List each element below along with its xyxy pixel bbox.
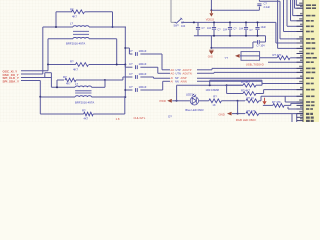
capacitor C10 (253, 40, 266, 44)
resistor R8 (227, 83, 262, 87)
inductor L1 winding bottom (73, 37, 89, 38)
wire c10 right elbow (265, 36, 267, 42)
svg-text:CHL/GTL: CHL/GTL (134, 116, 146, 120)
node gnd tee (210, 47, 212, 49)
port arrow gnd (227, 112, 238, 116)
svg-text:AI: AI (171, 76, 174, 80)
node row2 left (55, 26, 57, 28)
wire top rail right elbow (276, 22, 303, 43)
svg-text:4K7: 4K7 (66, 82, 71, 86)
wire rect loop (241, 52, 260, 61)
wire bottom exit 1 (291, 114, 293, 122)
svg-text:10uF: 10uF (261, 26, 267, 29)
wire vdd drop (210, 0, 212, 10)
resistor R10 (246, 112, 303, 116)
wire mid2 to ic (197, 71, 303, 74)
label L2 part number (75, 101, 94, 105)
wire bottom exit 2 (296, 114, 298, 122)
wire row4 (48, 64, 125, 66)
svg-text:D?: D? (168, 115, 172, 119)
diode LED1 (190, 94, 198, 105)
IC U1 body (303, 0, 319, 122)
net label usb (246, 62, 264, 66)
label R11 (272, 100, 281, 104)
label C8 (234, 27, 244, 30)
capacitor C3 (136, 75, 138, 79)
inductor L2 winding bottom (75, 96, 91, 97)
wire led row to ic (238, 100, 245, 102)
wire net3 (21, 77, 51, 79)
label rail note (206, 88, 219, 92)
capacitor C7 (228, 22, 232, 35)
svg-text:C?: C? (129, 62, 133, 66)
wire led riser (177, 85, 178, 101)
node c6 top (213, 21, 215, 23)
label R2 value (73, 67, 78, 71)
label R3 designator (63, 75, 67, 79)
inductor L2 core lines (75, 91, 91, 93)
port arrow led (160, 99, 177, 103)
power port down red (262, 98, 266, 105)
wire capC right (140, 77, 170, 78)
label port mid (225, 56, 229, 60)
svg-text:AINN: AINN (181, 80, 187, 84)
inductor L1 core lines (73, 31, 89, 34)
label R8 (241, 80, 250, 84)
label R9 (241, 88, 250, 92)
svg-text:AOUTP: AOUTP (183, 68, 192, 72)
label C2 (129, 62, 147, 66)
node capA tap (124, 47, 126, 49)
wire left vertical to red row1 (47, 65, 49, 71)
node capD tap (124, 89, 126, 91)
wire pin109 riser (288, 107, 303, 109)
svg-text:R? 47K: R? 47K (272, 100, 281, 104)
resistor R2 row4 (75, 63, 89, 67)
wire nest v5 (296, 0, 303, 5)
wire net3 bridge (45, 73, 52, 88)
net label left 3 (3, 76, 19, 80)
svg-text:1R0 0.8MM: 1R0 0.8MM (206, 88, 219, 92)
IC U1 pin names (306, 4, 317, 122)
label R4 value (84, 116, 89, 120)
wire capD left (125, 89, 132, 91)
svg-text:R? 1K: R? 1K (247, 96, 255, 100)
wire net1 (21, 70, 48, 72)
wire row2 (43, 26, 126, 28)
resistor R4 bottom (84, 112, 94, 116)
wire net4 vertical (39, 81, 41, 114)
label L1 designator (70, 22, 74, 26)
wire gnd drop (210, 36, 212, 48)
svg-text:C?: C? (129, 85, 133, 89)
resistor R6 (209, 99, 238, 103)
capacitor C9 (255, 22, 259, 35)
net label mid 3 (171, 76, 187, 80)
inductor L1 winding top (73, 26, 89, 27)
label C10 (257, 45, 266, 48)
svg-text:L?: L? (70, 22, 74, 26)
label d? (168, 115, 172, 119)
net label left 4 (3, 80, 20, 84)
svg-text:AO: AO (171, 72, 175, 76)
label R10 (247, 109, 256, 113)
svg-text:RGB LED 0603: RGB LED 0603 (236, 118, 256, 122)
power port VDD arrow (209, 10, 213, 16)
label R7 value (247, 96, 255, 100)
node c7 bottom (229, 35, 231, 37)
label C3 (129, 72, 147, 76)
svg-text:R?: R? (213, 95, 217, 99)
wire gnd row (238, 113, 245, 115)
label C5 (181, 21, 186, 27)
node c6 bottom (213, 35, 215, 37)
capacitor C2 (136, 65, 138, 69)
wire row3 right elbow (89, 39, 117, 65)
node c9 bottom (257, 35, 259, 37)
node net4-winding2 (39, 96, 41, 98)
node c8 bottom (245, 35, 247, 37)
wire port row (263, 104, 273, 106)
wire cap bank bottom rail (194, 35, 266, 37)
wire net2 (21, 73, 43, 75)
wire vdd to cap (211, 9, 259, 11)
svg-text:R? 4K7: R? 4K7 (241, 88, 250, 92)
net label chl (134, 116, 146, 120)
node c7 top (229, 21, 231, 23)
wire c9 top elbow (259, 1, 303, 39)
svg-text:AI: AI (171, 80, 174, 84)
wire rail b drop (227, 85, 243, 93)
svg-text:4K7: 4K7 (73, 67, 78, 71)
svg-text:SPI_SDA_Y: SPI_SDA_Y (3, 80, 20, 84)
wire net4 (21, 80, 40, 82)
label R1 value (72, 15, 77, 19)
node row1-row2 right (112, 26, 114, 28)
label VDD (206, 18, 215, 21)
capacitor C8 (244, 22, 248, 35)
node rail left (193, 21, 195, 23)
svg-text:USB_TXD0-D: USB_TXD0-D (246, 62, 264, 66)
wire winding1 left (51, 86, 75, 88)
wire bottom rail right (93, 97, 125, 114)
wire led cathode (199, 100, 209, 102)
node gnd row (237, 113, 239, 115)
svg-text:PWR: PWR (160, 99, 166, 103)
label LED1 part (185, 108, 204, 112)
net label left 1 (3, 70, 18, 74)
net label rgb (236, 118, 256, 122)
label SW1 (174, 24, 180, 27)
svg-text:100nF: 100nF (139, 49, 147, 53)
svg-text:C?: C? (129, 72, 133, 76)
svg-text:100nF: 100nF (139, 72, 147, 76)
switch SW1 (175, 18, 194, 24)
wire stray gray (171, 0, 175, 22)
svg-text:104: 104 (239, 27, 244, 30)
label C8b (250, 26, 267, 32)
wire row1 left elbow (56, 12, 66, 27)
svg-text:GND: GND (208, 57, 213, 59)
wire mid1 to ic (197, 68, 303, 69)
svg-text:C? 104: C? 104 (257, 45, 266, 48)
wire capA left (125, 48, 132, 54)
net label mid 2 (171, 72, 192, 76)
wire c10 left elbow (252, 42, 254, 48)
svg-text:100nF: 100nF (139, 62, 147, 66)
wire row1 right elbow (89, 12, 113, 27)
svg-text:R?: R? (63, 75, 67, 79)
label C7 (218, 29, 228, 32)
wire mid3 to ic (197, 77, 303, 79)
resistor R9 (243, 90, 303, 96)
wire gnd run (211, 47, 253, 49)
node rail b (226, 84, 228, 86)
node vdd (210, 9, 212, 11)
svg-text:BRF2016-49TA: BRF2016-49TA (75, 101, 94, 105)
IC U1 pin stubs (297, 5, 304, 120)
svg-text:SW?: SW? (174, 24, 180, 27)
label C6 (202, 27, 212, 30)
label R2 designator (70, 60, 74, 64)
resistor R1 (66, 10, 89, 14)
capacitor C1 (136, 52, 138, 56)
wire winding2 right (92, 96, 126, 98)
wire capB left (125, 65, 132, 68)
label L1 part number (66, 42, 85, 46)
wire nest v6 (295, 0, 304, 8)
svg-text:Y?: Y? (225, 56, 229, 60)
wire cap bank top rail (194, 21, 276, 23)
wire mid4 to ic (197, 81, 303, 83)
capacitor C5 (196, 22, 200, 35)
wire nest v4 (293, 0, 303, 16)
label C1 (129, 49, 147, 53)
resistor R5 (260, 56, 303, 60)
svg-text:100nF: 100nF (139, 85, 147, 89)
label R5 (273, 53, 282, 57)
resistor R3 row5 (65, 78, 105, 82)
resistor R7 (246, 96, 303, 102)
svg-text:C?: C? (129, 49, 133, 53)
svg-text:NN: NN (175, 80, 179, 84)
svg-text:UTP: UTP (176, 68, 181, 72)
label LED1 designator (186, 92, 193, 96)
wire nest v2 (287, 0, 303, 26)
node row5 right (104, 79, 106, 81)
label L2 designator (75, 82, 79, 86)
svg-text:104: 104 (223, 29, 228, 32)
wire pin48 feed (278, 0, 303, 48)
label R6 designator (213, 95, 217, 99)
wire winding1 right (92, 80, 106, 87)
svg-text:R?: R? (70, 7, 74, 11)
wire nest v1 (284, 0, 304, 32)
wire nest v3 (291, 0, 304, 21)
svg-text:R?: R? (82, 108, 86, 112)
IC U1 pin numbers (299, 3, 302, 120)
svg-text:104: 104 (207, 27, 212, 30)
svg-text:LED?: LED? (186, 92, 193, 96)
resistor R11 (273, 103, 303, 107)
svg-text:VDD33: VDD33 (206, 18, 215, 21)
label R6 value (212, 103, 215, 107)
node c9 top (257, 21, 259, 23)
svg-text:UTN: UTN (176, 72, 181, 76)
node rail a (209, 84, 211, 86)
svg-text:GND: GND (219, 112, 225, 116)
svg-text:R? 47K: R? 47K (247, 109, 256, 113)
node c8 top (245, 21, 247, 23)
node winding1 left (56, 86, 58, 88)
ground symbol mid (208, 50, 214, 58)
svg-text:L?: L? (75, 82, 79, 86)
label R3 value (66, 82, 71, 86)
label C9 (264, 1, 271, 9)
net label left 2 (3, 73, 19, 77)
label C4 (129, 85, 147, 89)
svg-text:1K: 1K (212, 103, 215, 107)
wire led anode (177, 100, 190, 102)
node row4 right (116, 64, 118, 66)
wire usb to ic (268, 61, 303, 63)
svg-text:4K7: 4K7 (72, 15, 77, 19)
net label mid 1 (171, 68, 192, 72)
capacitor C4 (136, 88, 138, 92)
wire capB right (140, 67, 170, 73)
svg-text:AOUTN: AOUTN (183, 72, 192, 76)
svg-text:Blue LED 0603: Blue LED 0603 (185, 108, 204, 112)
node row4 left (47, 64, 49, 66)
capacitor C6 (212, 22, 216, 35)
port arrow left mid (235, 54, 260, 58)
label R1 designator (70, 7, 74, 11)
label gnd bottom (219, 112, 225, 116)
net label 1v8 (116, 117, 120, 121)
wire rail a stub (210, 80, 262, 85)
wire capC left feed (105, 77, 132, 80)
node winding2 right (124, 96, 126, 98)
svg-text:NP: NP (175, 76, 179, 80)
wire winding2 left (40, 96, 75, 98)
svg-text:C?: C? (264, 1, 268, 5)
svg-text:AO: AO (171, 68, 175, 72)
node led row (237, 100, 239, 102)
capacitor C9 (257, 0, 261, 10)
svg-text:R? 47K: R? 47K (273, 53, 282, 57)
svg-text:R?: R? (70, 60, 74, 64)
wire row2 left vertical (42, 27, 44, 74)
wire bottom rail left (40, 113, 83, 115)
wire gnd row vertical (237, 101, 239, 114)
inductor L2 winding top (75, 86, 91, 87)
label R4 designator (82, 108, 86, 112)
wire capD right (140, 81, 170, 90)
wire pin102 riser (285, 96, 303, 102)
svg-text:BRF2016-49TA: BRF2016-49TA (66, 42, 85, 46)
svg-text:1.8: 1.8 (116, 117, 120, 121)
wire row5 left elbow (57, 80, 64, 87)
wire center vertical (124, 27, 126, 97)
svg-text:2.2uF: 2.2uF (264, 5, 271, 9)
wire row3 left elbow (48, 39, 73, 65)
wire led rail (178, 84, 243, 86)
svg-text:4K7: 4K7 (84, 116, 89, 120)
net label mid 4 (171, 80, 187, 84)
svg-text:AINP: AINP (181, 76, 187, 80)
wire capA right (140, 54, 170, 70)
node row4-capB (124, 64, 126, 66)
svg-text:104: 104 (181, 25, 186, 28)
node led riser (176, 100, 178, 102)
